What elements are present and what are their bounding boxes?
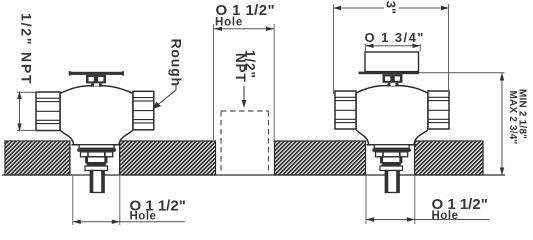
dim hole top-middle extensions <box>214 24 275 140</box>
right valve body <box>356 86 428 145</box>
right valve inlet connector left <box>335 91 356 129</box>
right valve locknut flange <box>380 166 403 171</box>
deck underside line <box>2 174 505 176</box>
right valve flange bar <box>359 72 420 75</box>
dim 1 3/4 line <box>366 45 420 47</box>
left valve shank block <box>86 157 107 163</box>
svg-text:Rough: Rough <box>169 39 185 87</box>
svg-text:Hole: Hole <box>432 210 459 222</box>
left valve bonnet <box>86 75 106 84</box>
dim 1/2 NPT left vertical line <box>19 92 21 131</box>
right valve bonnet <box>383 74 403 83</box>
mid leader down arrow <box>243 86 245 101</box>
dim 1/2 NPT extension ticks <box>17 92 36 130</box>
left valve outlet pipe <box>90 171 104 193</box>
svg-text:3": 3" <box>383 1 397 14</box>
right valve inlet connector right <box>428 91 449 129</box>
right valve hex nut <box>376 152 408 157</box>
dim min-max reference line top <box>419 72 505 74</box>
left valve locknut flange <box>85 166 108 171</box>
deck slab right section B <box>415 141 484 175</box>
left valve handle bar <box>69 72 124 75</box>
left valve hex nut <box>81 152 113 157</box>
dim 3in extensions <box>334 4 449 94</box>
right valve outlet pipe <box>385 171 399 193</box>
right valve shank escutcheon plate <box>374 145 409 149</box>
rough leader arrow <box>158 84 176 105</box>
dim hole top-middle line <box>214 28 274 30</box>
dim hole bottom-right extensions <box>366 176 415 224</box>
right valve shank block <box>381 157 402 163</box>
deck slab right section A <box>275 141 366 175</box>
hidden hole dashed outline <box>221 111 269 174</box>
svg-text:Hole: Hole <box>215 17 243 29</box>
left valve inlet connector left <box>36 92 60 131</box>
left valve lock ring dark <box>87 163 106 166</box>
svg-text:O 1 3/4": O 1 3/4" <box>365 30 425 45</box>
svg-text:1/2" NPT: 1/2" NPT <box>19 13 35 85</box>
dim hole bottom-left line <box>73 221 185 223</box>
svg-text:NPT: NPT <box>233 53 248 83</box>
dim 3in top line <box>334 7 449 9</box>
right valve lock ring dark <box>382 163 401 166</box>
dim hole bottom-right line <box>366 219 489 221</box>
deck slab left section A <box>5 141 70 175</box>
svg-text:Hole: Hole <box>130 210 157 222</box>
dim min-max vertical line <box>501 73 503 175</box>
right valve o-ring band <box>372 148 411 152</box>
dim hole bottom-left extensions <box>73 176 120 225</box>
left valve inlet connector right <box>133 91 154 130</box>
svg-text:MAX 2 3/4": MAX 2 3/4" <box>507 91 518 145</box>
deck slab left section B <box>120 141 216 175</box>
left valve o-ring band <box>77 148 116 152</box>
left valve body <box>60 86 133 145</box>
left valve shank escutcheon plate <box>79 145 114 149</box>
right valve handle canopy <box>365 52 419 72</box>
